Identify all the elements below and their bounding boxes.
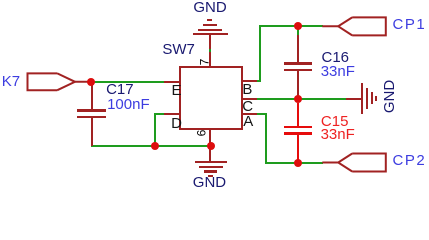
capacitor C15 (highlighted) <box>297 103 299 126</box>
wire bottom net horizontal <box>91 145 212 147</box>
wire D net horizontal <box>154 113 164 115</box>
wire C net horizontal <box>257 98 346 100</box>
label CP2 <box>393 153 427 168</box>
connector CP1 stub <box>322 25 338 27</box>
wire pin7 notch <box>209 49 211 52</box>
pin C stub <box>241 98 257 100</box>
pin 7 stub vertical <box>209 52 211 67</box>
junction node bottom C15/CP2 <box>294 159 302 167</box>
label 100nF <box>107 97 150 112</box>
pin number 7 <box>198 58 210 65</box>
pin number 6 <box>196 130 208 137</box>
label GND top <box>193 0 226 15</box>
ground GND bottom <box>209 147 211 161</box>
junction node top C16/CP1 <box>294 22 302 30</box>
junction node bottom D <box>151 142 159 150</box>
label 33nF C15 <box>321 127 355 142</box>
label SW7 <box>162 42 195 57</box>
label K7 <box>2 74 20 89</box>
connector K7 stub <box>75 81 91 83</box>
junction node K7/C17/E <box>87 78 95 86</box>
pin name B <box>242 82 252 97</box>
ground GND top (inverted) <box>207 19 213 21</box>
label C15 <box>321 114 349 129</box>
pin D stub <box>164 113 180 115</box>
connector CP1 shape <box>338 17 386 35</box>
wire A net stub horizontal <box>257 113 267 115</box>
connector CP2 stub <box>322 162 338 164</box>
wire D net vertical <box>154 113 156 146</box>
SW7 box <box>179 66 243 131</box>
label C16 <box>322 50 350 65</box>
label 33nF C16 <box>321 64 355 79</box>
capacitor C17 <box>91 82 93 110</box>
connector CP2 shape <box>338 154 386 172</box>
wire B net vertical <box>259 25 261 82</box>
wire A net vertical <box>265 113 267 163</box>
junction node bottom pin6 <box>207 142 215 150</box>
wire B net stub horizontal <box>257 80 261 82</box>
label CP1 <box>393 17 427 32</box>
pin 6 stub vertical <box>209 130 211 145</box>
ground GND right (rotated) <box>346 98 362 100</box>
pin B stub <box>241 80 257 82</box>
wire B net top horizontal <box>259 25 323 27</box>
pin name D <box>171 116 182 131</box>
pin name C <box>242 99 253 114</box>
capacitor C16 <box>297 35 299 63</box>
wire K7 net horizontal <box>91 81 164 83</box>
label GND right <box>382 80 397 113</box>
pin name E <box>172 83 182 98</box>
junction node mid C16/C15/C <box>294 95 302 103</box>
wire C16 top stub vertical <box>297 26 299 36</box>
pin A stub <box>241 113 257 115</box>
pin name A <box>243 114 253 129</box>
label GND bottom <box>193 175 226 190</box>
label C17 <box>106 82 134 97</box>
wire CP2 net horizontal <box>265 162 323 164</box>
pin E stub <box>164 81 180 83</box>
connector K7 shape <box>28 73 76 90</box>
